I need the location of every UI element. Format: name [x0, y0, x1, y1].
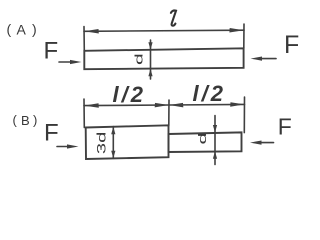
diameter dimension line d (A) [148, 40, 152, 79]
force arrow F left (A) [59, 60, 82, 64]
label l/2 right [193, 81, 224, 106]
thick bar segment (B) [86, 125, 169, 159]
svg-text:l/2: l/2 [113, 82, 144, 107]
extension line middle (B) [168, 100, 170, 126]
svg-text:F: F [44, 38, 59, 65]
force arrow F left (B) [57, 144, 79, 148]
svg-text:): ) [32, 21, 37, 37]
svg-text:d: d [133, 53, 145, 65]
label d (A) rotated [133, 53, 145, 65]
svg-text:B: B [21, 113, 30, 128]
extension line right (B) [243, 97, 245, 133]
dimension line l (A) [84, 28, 244, 34]
force label F left of bar A [44, 38, 59, 65]
dimension line l/2 right (B) [169, 102, 245, 107]
svg-text:l/2: l/2 [193, 81, 224, 106]
force arrow F right (A) [251, 57, 277, 61]
svg-text:F: F [278, 114, 292, 140]
extension line left (A) [83, 27, 85, 51]
svg-text:F: F [44, 119, 59, 146]
svg-text:3d: 3d [96, 132, 109, 154]
svg-text:(: ( [13, 113, 18, 128]
force arrow F right (B) [250, 141, 274, 145]
force label F left of bar B [44, 119, 59, 146]
dimension line l/2 left (B) [84, 103, 169, 108]
svg-text:): ) [33, 113, 37, 128]
diameter dimension line d (B) [213, 116, 217, 165]
diameter dimension line 3d (B) [111, 127, 115, 159]
svg-text:F: F [284, 31, 299, 59]
bar A [84, 48, 243, 69]
extension line right (A) [243, 24, 245, 48]
svg-text:A: A [17, 22, 27, 38]
thin bar segment (B) [169, 132, 242, 152]
label 3d rotated [96, 132, 109, 154]
label (B) [13, 113, 38, 129]
svg-text:d: d [197, 133, 209, 145]
force label F right of bar A [284, 31, 299, 59]
label (A) [7, 21, 37, 38]
svg-text:(: ( [7, 21, 12, 37]
extension line left (B) [83, 99, 85, 128]
label l [171, 10, 176, 25]
force label F right of bar B [278, 114, 292, 140]
label l/2 left [113, 82, 144, 107]
label d (B) rotated [197, 133, 209, 145]
